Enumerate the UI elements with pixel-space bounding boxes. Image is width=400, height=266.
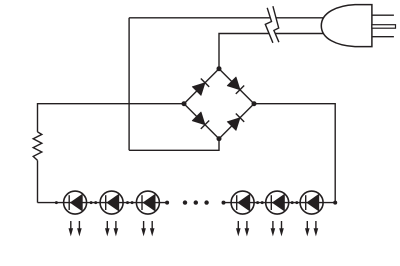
- wire: upper AC lead (plug to left vertical): [129, 17, 324, 19]
- wire: bridge left node to resistor top: [38, 104, 185, 132]
- diode D4 (bridge, bottom node to right node): [227, 114, 244, 131]
- resistor R1: [33, 132, 42, 161]
- wire: bridge edge bottom-right: [219, 104, 254, 139]
- wire: bottom run to bridge bottom node: [129, 139, 219, 151]
- LED LED5: [266, 191, 289, 236]
- wire: bridge edge top-right: [219, 69, 254, 104]
- junction dots between LED2 and LED3: [126, 201, 134, 204]
- diode D3 (bridge, left node to bottom node): [192, 112, 209, 129]
- plug prong (middle, ground pin): [372, 25, 396, 29]
- diode D1 (bridge, left node to top node): [192, 79, 209, 96]
- LED LED1: [64, 191, 87, 236]
- junction dots between LED4 and LED5: [256, 201, 264, 204]
- junction dot on rail before LED1: [55, 201, 58, 204]
- wire: LED rail right section: [224, 202, 336, 204]
- junction dot: bridge top node: [217, 66, 222, 71]
- wire: bridge right node to LED rail right corner: [254, 104, 335, 203]
- LED LED3: [136, 191, 159, 236]
- AC wall plug: [321, 5, 395, 47]
- plug prong (top blade): [372, 14, 394, 16]
- wire: left vertical drop from upper lead: [128, 18, 130, 151]
- junction dot: bridge bottom node: [217, 136, 222, 141]
- ellipsis (continuation of LED string): [183, 200, 209, 204]
- junction dot: bridge right node: [252, 101, 257, 106]
- junction dots between LED1 and LED2: [90, 201, 98, 204]
- LED LED2: [100, 191, 123, 236]
- wire end cap dot (right rail start): [222, 201, 226, 205]
- wire: bridge edge left-top: [184, 69, 219, 104]
- LED LED6: [300, 191, 323, 236]
- wire: lower AC lead (plug to bridge top node): [219, 34, 324, 69]
- junction dot: rail right corner: [333, 201, 337, 205]
- diode D2 (bridge, top node to right node): [227, 77, 244, 94]
- wire: bridge edge left-bottom: [184, 104, 219, 139]
- wire: resistor bottom to LED rail: [37, 160, 39, 202]
- wire: LED rail left section: [38, 202, 168, 204]
- wire end cap dot (left rail end): [165, 201, 169, 205]
- plug prong (bottom blade): [372, 36, 394, 38]
- cord interruption symbol (break in cord): [265, 6, 279, 43]
- junction dot: bridge left node: [182, 101, 187, 106]
- junction dots between LED5 and LED6: [291, 201, 299, 204]
- LED LED4: [231, 191, 254, 236]
